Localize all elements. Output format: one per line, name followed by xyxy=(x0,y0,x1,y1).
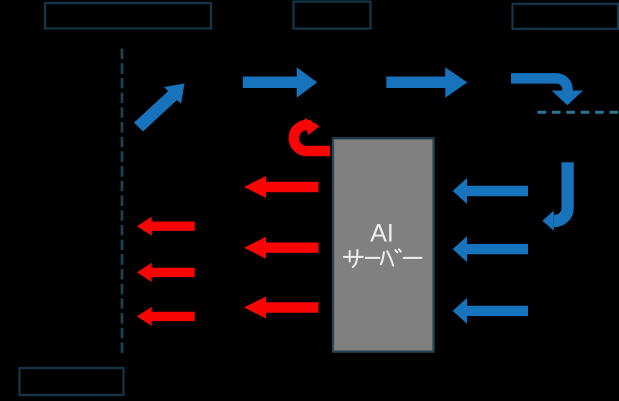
box: top-left (user site) xyxy=(45,3,211,29)
gray box: AI server xyxy=(333,138,434,351)
dashed horizontal line (right) xyxy=(538,111,619,114)
arrow: red left-pointing (left column, row 3) xyxy=(137,307,195,326)
box: top-middle xyxy=(294,2,371,29)
arrow: blue horizontal 1 xyxy=(243,67,317,98)
dashed vertical line (boundary) xyxy=(121,49,124,356)
arrow: red left-pointing (left column, row 1) xyxy=(137,217,195,236)
katakana sa xyxy=(344,256,363,258)
arrow: blue elbow bend-down (top right) xyxy=(511,78,568,91)
arrow: red left-pointing (left column, row 2) xyxy=(137,263,195,282)
box: bottom-left xyxy=(20,368,124,395)
gray box top dark edge xyxy=(332,137,434,139)
arrow: red left-pointing (right column, row 2) xyxy=(244,237,319,259)
arrow: red left-pointing (right column, row 1) xyxy=(244,176,319,198)
arrow: blue diagonal up-right xyxy=(134,84,185,132)
katakana long vowel 1 xyxy=(366,257,380,259)
arrow: blue left-pointing (right side, row 2) xyxy=(453,236,528,262)
label: sa-ba- (katakana drawn as strokes) xyxy=(344,249,422,267)
svg-text:AI: AI xyxy=(370,220,394,248)
arrow: red curl (clockwise) at gray box top-left xyxy=(294,125,330,151)
arrow: red left-pointing (right column, row 3) xyxy=(244,297,319,319)
arrow: blue J-shaped (right) xyxy=(554,162,568,221)
katakana long vowel 2 xyxy=(404,257,422,259)
arrow: blue horizontal 2 xyxy=(386,67,467,98)
box: top-right xyxy=(513,4,619,29)
arrow: blue left-pointing (right side, row 1) xyxy=(453,178,528,204)
arrow: blue left-pointing (right side, row 3) xyxy=(453,298,528,324)
katakana ba xyxy=(381,252,384,264)
